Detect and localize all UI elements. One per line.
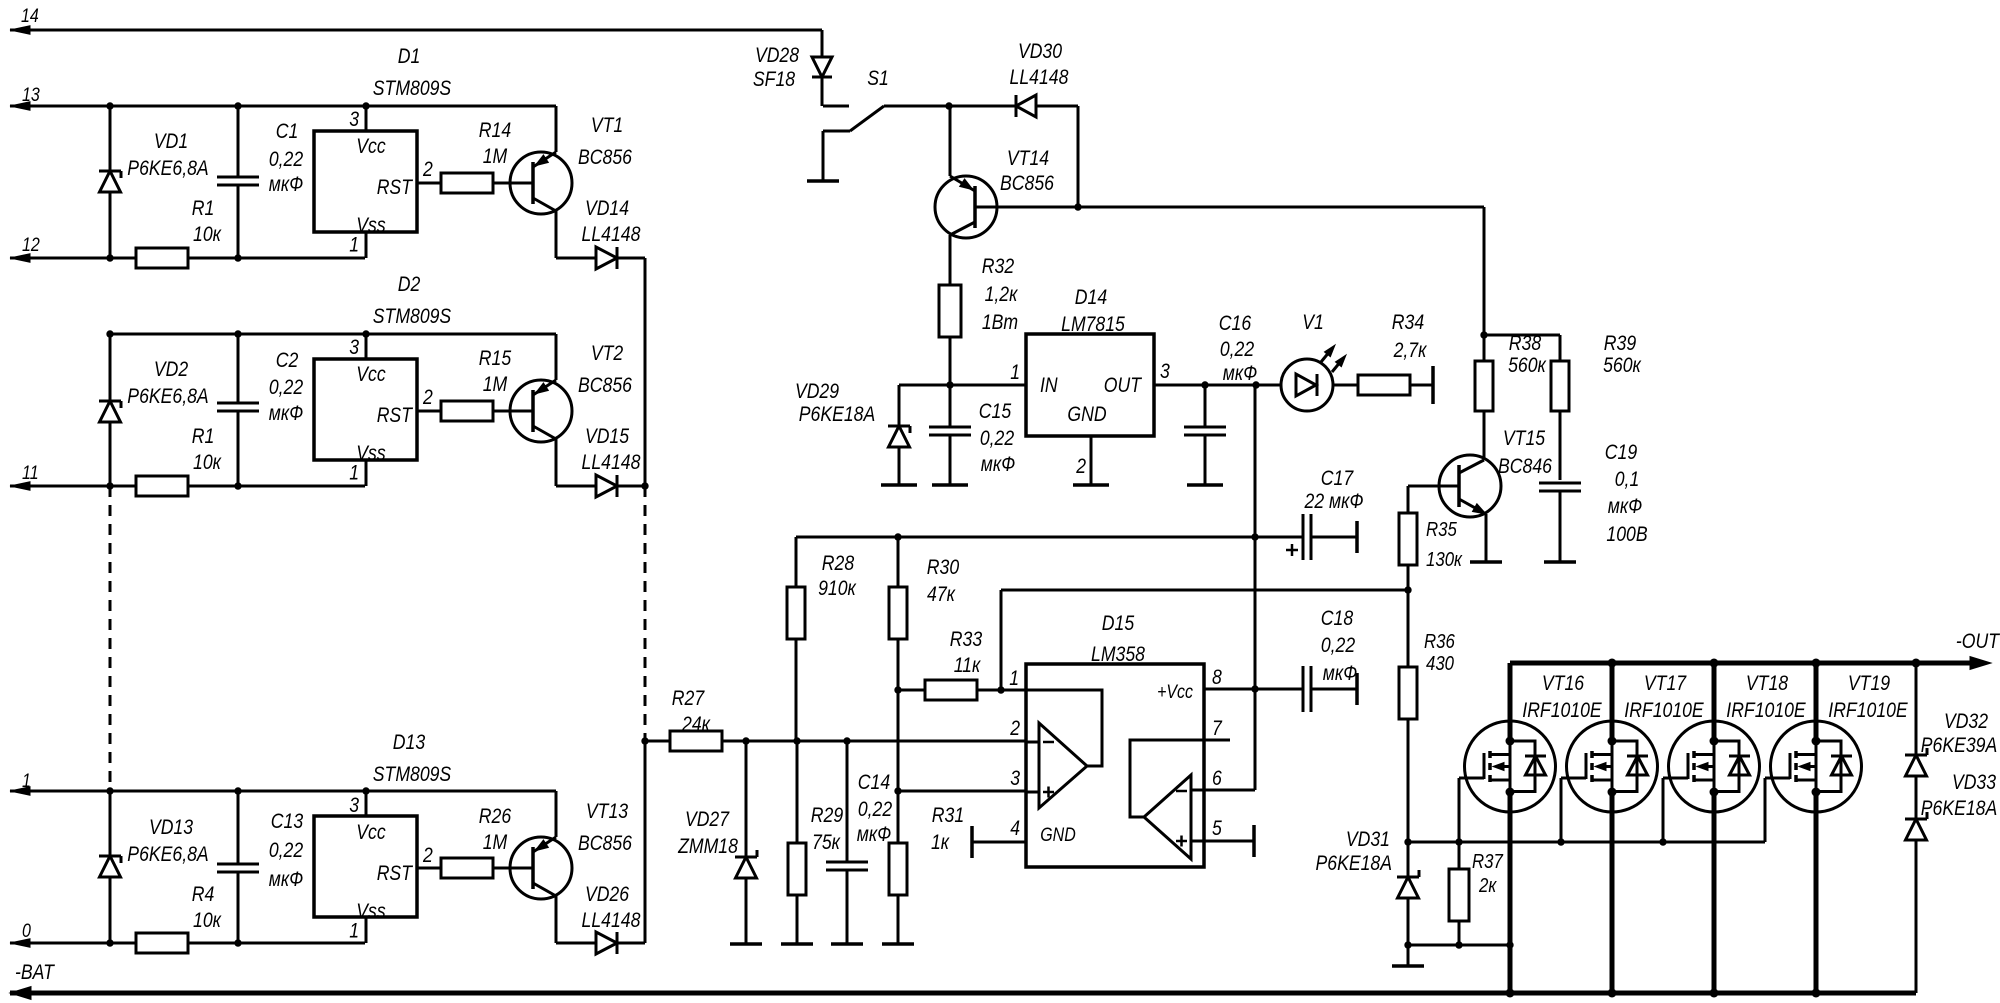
svg-text:V1: V1 bbox=[1302, 311, 1324, 334]
svg-text:100В: 100В bbox=[1606, 523, 1647, 546]
svg-text:VD13: VD13 bbox=[149, 816, 193, 839]
pin 1 bbox=[365, 917, 368, 943]
wire op-amp output feedback bbox=[1000, 590, 1003, 690]
svg-text:BC856: BC856 bbox=[1000, 172, 1054, 195]
svg-text:2: 2 bbox=[422, 158, 433, 181]
svg-text:6: 6 bbox=[1212, 767, 1222, 790]
capacitor C15 bbox=[949, 385, 952, 428]
diode VD2 bbox=[109, 334, 112, 401]
wire divider top rail bbox=[796, 536, 1303, 539]
pin 3 bbox=[365, 106, 368, 131]
wire right column to VD26 bbox=[644, 741, 647, 943]
wire pin2 input line bbox=[722, 740, 1026, 743]
diode VD31 P6KE18A bbox=[1407, 842, 1410, 877]
svg-text:3: 3 bbox=[349, 336, 359, 359]
wire gate bus bbox=[1408, 841, 1765, 844]
resistor R39 bbox=[1484, 334, 1560, 337]
svg-text:Vss: Vss bbox=[356, 900, 386, 923]
wire top line node 13 bbox=[10, 105, 556, 108]
diode VD13 bbox=[109, 791, 112, 856]
resistor R32 bbox=[939, 285, 961, 337]
svg-text:D2: D2 bbox=[398, 273, 421, 296]
diode VD1 bbox=[109, 106, 112, 171]
diode VD15 LL4148 bbox=[556, 485, 596, 488]
junction bbox=[946, 381, 953, 388]
svg-text:1M: 1M bbox=[483, 831, 508, 854]
wire R30 to R31 bbox=[897, 690, 900, 791]
svg-text:IRF1010E: IRF1010E bbox=[1828, 699, 1908, 722]
junction bbox=[106, 482, 113, 489]
resistor R36 bbox=[1407, 590, 1410, 667]
transistor VT18 IRF1010E bbox=[1669, 721, 1760, 812]
junction bbox=[1455, 838, 1462, 845]
svg-text:P6KE6,8A: P6KE6,8A bbox=[127, 843, 208, 866]
wire IN line bbox=[899, 384, 1026, 387]
junction bbox=[1074, 203, 1081, 210]
transistor VT17 IRF1010E bbox=[1567, 721, 1658, 812]
svg-text:SF18: SF18 bbox=[753, 68, 795, 91]
svg-text:75к: 75к bbox=[812, 831, 841, 854]
wire VD30 to VT14 base bbox=[1077, 106, 1080, 207]
svg-text:BC846: BC846 bbox=[1498, 455, 1552, 478]
svg-text:1: 1 bbox=[349, 462, 359, 485]
svg-text:VD27: VD27 bbox=[685, 808, 730, 831]
diode VD14 LL4148 bbox=[556, 257, 596, 260]
svg-text:R26: R26 bbox=[479, 805, 512, 828]
svg-text:C18: C18 bbox=[1321, 607, 1354, 630]
svg-text:R28: R28 bbox=[822, 552, 855, 575]
svg-text:1: 1 bbox=[22, 771, 31, 792]
svg-text:P6KE18A: P6KE18A bbox=[1316, 852, 1393, 875]
svg-text:C2: C2 bbox=[276, 349, 299, 372]
svg-text:R27: R27 bbox=[672, 687, 706, 710]
svg-text:C16: C16 bbox=[1219, 312, 1252, 335]
capacitor C17 polarized bbox=[1302, 514, 1305, 560]
svg-text:LL4148: LL4148 bbox=[582, 223, 641, 246]
junction bbox=[641, 482, 648, 489]
svg-text:P6KE6,8A: P6KE6,8A bbox=[127, 385, 208, 408]
resistor R33 bbox=[898, 689, 925, 692]
junction bbox=[1480, 331, 1487, 338]
svg-text:0,22: 0,22 bbox=[1220, 338, 1255, 361]
pin 1 bbox=[365, 232, 368, 258]
svg-text:C14: C14 bbox=[858, 771, 890, 794]
svg-text:R4: R4 bbox=[192, 883, 215, 906]
pin 1 bbox=[365, 460, 368, 486]
svg-text:VD32: VD32 bbox=[1944, 710, 1988, 733]
resistor R38 bbox=[1483, 335, 1486, 361]
wire dashed omitted cells right bbox=[644, 486, 647, 741]
svg-text:C13: C13 bbox=[271, 810, 304, 833]
op-amp B triangle bbox=[1144, 775, 1191, 859]
resistor R35 bbox=[1407, 486, 1410, 513]
svg-text:R14: R14 bbox=[479, 119, 511, 142]
svg-text:Vcc: Vcc bbox=[356, 363, 386, 386]
svg-text:+Vcc: +Vcc bbox=[1157, 682, 1193, 703]
svg-text:560к: 560к bbox=[1508, 354, 1547, 377]
svg-text:7: 7 bbox=[1212, 717, 1223, 740]
svg-text:мкФ: мкФ bbox=[1223, 362, 1257, 385]
resistor R30 bbox=[897, 537, 900, 587]
wire base rail to R38R39 bbox=[1078, 206, 1484, 209]
svg-text:RST: RST bbox=[377, 404, 414, 427]
junction bbox=[1404, 838, 1411, 845]
svg-text:560к: 560к bbox=[1603, 354, 1642, 377]
svg-text:мкФ: мкФ bbox=[269, 402, 303, 425]
svg-text:2,7к: 2,7к bbox=[1393, 339, 1428, 362]
transistor VT19 IRF1010E bbox=[1771, 721, 1862, 812]
pin 7 stub bbox=[1204, 739, 1230, 742]
svg-text:3: 3 bbox=[1010, 767, 1020, 790]
transistor VT1 BC856 bbox=[510, 152, 572, 214]
IC D15 LM358 box bbox=[1026, 664, 1204, 867]
svg-text:1,2к: 1,2к bbox=[985, 283, 1019, 306]
svg-text:P6KE39A: P6KE39A bbox=[1921, 734, 1998, 757]
wire top line node 1 bbox=[10, 790, 556, 793]
svg-text:RST: RST bbox=[377, 862, 414, 885]
svg-text:VD14: VD14 bbox=[585, 197, 629, 220]
resistor R37 bbox=[1458, 842, 1461, 869]
svg-text:STM809S: STM809S bbox=[373, 305, 451, 328]
diode VD33 P6KE18A bbox=[1915, 776, 1918, 819]
svg-text:R35: R35 bbox=[1426, 519, 1458, 541]
resistor R1 bbox=[136, 476, 188, 496]
IC D2 STM809S box bbox=[314, 359, 417, 460]
svg-text:R31: R31 bbox=[932, 804, 964, 827]
junction bbox=[945, 102, 952, 109]
svg-text:1M: 1M bbox=[483, 373, 508, 396]
resistor R14 bbox=[441, 173, 493, 193]
capacitor C14 bbox=[846, 741, 849, 863]
resistor R26 bbox=[441, 858, 493, 878]
svg-text:мкФ: мкФ bbox=[981, 453, 1015, 476]
svg-text:R29: R29 bbox=[811, 804, 844, 827]
IC D13 STM809S box bbox=[314, 816, 417, 917]
svg-text:0,22: 0,22 bbox=[269, 148, 304, 171]
svg-text:LM7815: LM7815 bbox=[1061, 313, 1125, 336]
capacitor C19 bbox=[1539, 482, 1581, 485]
svg-text:13: 13 bbox=[22, 85, 40, 106]
junction bbox=[1506, 989, 1515, 998]
svg-text:22 мкФ: 22 мкФ bbox=[1304, 490, 1364, 513]
svg-text:910к: 910к bbox=[818, 577, 857, 600]
junction bbox=[1251, 685, 1258, 692]
svg-text:R1: R1 bbox=[192, 197, 215, 220]
svg-text:11: 11 bbox=[22, 463, 39, 484]
svg-text:R33: R33 bbox=[950, 628, 983, 651]
junction bbox=[894, 686, 901, 693]
svg-text:0: 0 bbox=[22, 921, 31, 942]
pin 3 bbox=[365, 334, 368, 359]
pin 2 wire bbox=[417, 182, 533, 185]
diode VD27 ZMM18 bbox=[745, 741, 748, 857]
IC D1 STM809S box bbox=[314, 131, 417, 232]
svg-text:IRF1010E: IRF1010E bbox=[1726, 699, 1806, 722]
resistor R28 bbox=[795, 537, 798, 587]
svg-text:4: 4 bbox=[1010, 817, 1020, 840]
svg-text:VT19: VT19 bbox=[1848, 672, 1890, 695]
svg-text:VT13: VT13 bbox=[586, 800, 628, 823]
svg-text:VD33: VD33 bbox=[1952, 771, 1996, 794]
svg-text:3: 3 bbox=[349, 794, 359, 817]
svg-text:OUT: OUT bbox=[1104, 374, 1143, 397]
wire top line node 14 bbox=[10, 29, 822, 32]
resistor R31 bbox=[897, 791, 900, 843]
diode VD26 LL4148 bbox=[556, 942, 596, 945]
junction bbox=[641, 737, 648, 744]
op-amp A triangle bbox=[1039, 723, 1087, 808]
svg-text:мкФ: мкФ bbox=[857, 823, 891, 846]
pin 6 wire bbox=[1204, 789, 1255, 792]
svg-text:R30: R30 bbox=[927, 556, 960, 579]
diode VD29 P6KE18A bbox=[898, 385, 901, 426]
transistor VT16 IRF1010E bbox=[1465, 721, 1556, 812]
svg-text:VD2: VD2 bbox=[154, 358, 189, 381]
wire -BAT bus bbox=[10, 991, 1916, 996]
svg-text:C19: C19 bbox=[1605, 441, 1638, 464]
resistor R29 bbox=[796, 741, 799, 843]
svg-text:VT14: VT14 bbox=[1007, 147, 1049, 170]
resistor R4 bbox=[136, 933, 188, 953]
svg-text:ZMM18: ZMM18 bbox=[677, 835, 738, 858]
pin 2 GND of D14 bbox=[1090, 436, 1093, 485]
IC D14 LM7815 box bbox=[1026, 334, 1154, 436]
resistor R27 bbox=[645, 740, 670, 743]
svg-text:R34: R34 bbox=[1392, 311, 1424, 334]
junction bbox=[1404, 586, 1411, 593]
svg-text:IRF1010E: IRF1010E bbox=[1522, 699, 1602, 722]
svg-text:STM809S: STM809S bbox=[373, 77, 451, 100]
svg-text:2: 2 bbox=[1009, 717, 1020, 740]
junction bbox=[1608, 659, 1617, 668]
svg-text:24к: 24к bbox=[681, 713, 711, 736]
svg-text:Vcc: Vcc bbox=[356, 821, 386, 844]
wire dashed omitted cells left bbox=[109, 486, 112, 791]
wire bottom line node 12 bbox=[10, 257, 365, 260]
junction bbox=[894, 533, 901, 540]
pin 2 wire bbox=[417, 867, 533, 870]
svg-text:0,22: 0,22 bbox=[1321, 634, 1356, 657]
resistor R1 bbox=[136, 248, 188, 268]
svg-text:VD30: VD30 bbox=[1018, 40, 1062, 63]
pin 8 wire bbox=[1204, 688, 1303, 691]
wire pin3 input line bbox=[898, 790, 1026, 793]
svg-text:P6KE6,8A: P6KE6,8A bbox=[127, 157, 208, 180]
svg-text:D1: D1 bbox=[398, 45, 421, 68]
junction bbox=[1201, 381, 1208, 388]
wire OUT line bbox=[1154, 384, 1281, 387]
svg-text:11к: 11к bbox=[954, 654, 982, 677]
svg-text:14: 14 bbox=[21, 6, 39, 27]
junction bbox=[1404, 941, 1411, 948]
junction bbox=[106, 330, 113, 337]
svg-text:мкФ: мкФ bbox=[269, 868, 303, 891]
svg-text:IN: IN bbox=[1040, 374, 1058, 397]
svg-text:3: 3 bbox=[1160, 360, 1170, 383]
svg-text:BC856: BC856 bbox=[578, 146, 632, 169]
svg-text:Vcc: Vcc bbox=[356, 135, 386, 158]
junction bbox=[894, 787, 901, 794]
svg-text:R37: R37 bbox=[1472, 851, 1504, 873]
svg-text:VT15: VT15 bbox=[1503, 427, 1545, 450]
svg-text:R36: R36 bbox=[1424, 631, 1456, 653]
svg-text:BC856: BC856 bbox=[578, 832, 632, 855]
svg-text:мкФ: мкФ bbox=[1608, 495, 1642, 518]
resistor R15 bbox=[441, 401, 493, 421]
diode VD30 LL4148 bbox=[949, 105, 1016, 108]
resistor R34 bbox=[1358, 375, 1410, 395]
capacitor C1 bbox=[237, 106, 240, 177]
svg-text:P6KE18A: P6KE18A bbox=[1921, 797, 1998, 820]
svg-text:VD28: VD28 bbox=[755, 44, 799, 67]
svg-text:0,22: 0,22 bbox=[269, 839, 304, 862]
junction bbox=[106, 939, 113, 946]
pin 1 wire bbox=[1001, 689, 1026, 692]
svg-text:0,22: 0,22 bbox=[858, 798, 893, 821]
svg-text:R1: R1 bbox=[192, 425, 215, 448]
svg-text:0,22: 0,22 bbox=[269, 376, 304, 399]
svg-text:1: 1 bbox=[349, 920, 359, 943]
junction bbox=[742, 737, 749, 744]
svg-text:1Вт: 1Вт bbox=[982, 311, 1018, 334]
capacitor C2 bbox=[237, 334, 240, 403]
svg-text:GND: GND bbox=[1067, 403, 1106, 426]
svg-text:47к: 47к bbox=[927, 583, 956, 606]
svg-text:10к: 10к bbox=[193, 451, 222, 474]
pin 4 wire bbox=[972, 841, 1026, 844]
svg-text:0,1: 0,1 bbox=[1615, 468, 1640, 491]
svg-text:430: 430 bbox=[1426, 653, 1454, 675]
svg-text:1M: 1M bbox=[483, 145, 508, 168]
svg-text:10к: 10к bbox=[193, 223, 222, 246]
svg-text:8: 8 bbox=[1212, 666, 1222, 689]
svg-text:VD26: VD26 bbox=[585, 883, 629, 906]
capacitor C16 bbox=[1204, 385, 1207, 428]
wire top line of block D2 bbox=[110, 333, 556, 336]
transistor VT14 BC856 bbox=[935, 176, 997, 238]
pin 5 stub bbox=[1204, 840, 1254, 843]
svg-text:LM358: LM358 bbox=[1091, 643, 1145, 666]
svg-text:R39: R39 bbox=[1604, 332, 1637, 355]
pin 3 bbox=[365, 791, 368, 816]
capacitor C13 bbox=[237, 791, 240, 864]
svg-text:VD1: VD1 bbox=[154, 130, 188, 153]
op-amp A output wire bbox=[1026, 690, 1102, 766]
diode VD28 SF18 bbox=[821, 30, 824, 57]
svg-text:BC856: BC856 bbox=[578, 374, 632, 397]
op-amp B output wire bbox=[1130, 740, 1204, 817]
capacitor C18 bbox=[1302, 666, 1305, 712]
svg-text:-BAT: -BAT bbox=[15, 961, 56, 984]
svg-text:-OUT: -OUT bbox=[1956, 630, 2000, 653]
transistor VT2 BC856 bbox=[510, 380, 572, 442]
diode VD32 P6KE39A bbox=[1915, 663, 1918, 755]
transistor VT15 BC846 bbox=[1439, 455, 1501, 517]
svg-text:1к: 1к bbox=[931, 831, 950, 854]
svg-text:Vss: Vss bbox=[356, 442, 386, 465]
svg-text:C1: C1 bbox=[276, 120, 299, 143]
svg-text:1: 1 bbox=[1010, 361, 1020, 384]
svg-text:мкФ: мкФ bbox=[269, 173, 303, 196]
wire Vcc column bbox=[1254, 385, 1257, 790]
svg-text:12: 12 bbox=[22, 235, 40, 256]
junction bbox=[106, 254, 113, 261]
svg-text:LL4148: LL4148 bbox=[582, 451, 641, 474]
svg-text:VT1: VT1 bbox=[591, 114, 623, 137]
svg-text:1: 1 bbox=[349, 234, 359, 257]
svg-text:3: 3 bbox=[349, 108, 359, 131]
svg-text:D15: D15 bbox=[1102, 612, 1135, 635]
svg-text:VT16: VT16 bbox=[1542, 672, 1584, 695]
LED V1 bbox=[1281, 359, 1333, 411]
wire -OUT bus bbox=[1510, 661, 1972, 666]
wire source sense line bbox=[1408, 944, 1510, 947]
junction bbox=[106, 102, 113, 109]
svg-text:S1: S1 bbox=[867, 67, 889, 90]
svg-text:GND: GND bbox=[1040, 825, 1076, 846]
svg-text:C15: C15 bbox=[979, 400, 1012, 423]
svg-text:VT2: VT2 bbox=[591, 342, 624, 365]
svg-text:LL4148: LL4148 bbox=[582, 909, 641, 932]
svg-text:Vss: Vss bbox=[356, 214, 386, 237]
svg-text:0,22: 0,22 bbox=[980, 427, 1015, 450]
svg-text:R15: R15 bbox=[479, 347, 512, 370]
junction bbox=[997, 686, 1004, 693]
svg-text:130к: 130к bbox=[1426, 549, 1463, 571]
svg-text:RST: RST bbox=[377, 176, 414, 199]
wire bottom line node 0 bbox=[10, 942, 365, 945]
transistor VT13 BC856 bbox=[510, 837, 572, 899]
svg-text:10к: 10к bbox=[193, 909, 222, 932]
wire right column VD14-VD15 bbox=[644, 258, 647, 486]
svg-text:VD15: VD15 bbox=[585, 425, 629, 448]
svg-text:1: 1 bbox=[1009, 667, 1019, 690]
svg-text:R32: R32 bbox=[982, 255, 1015, 278]
svg-text:мкФ: мкФ bbox=[1323, 662, 1357, 685]
svg-text:VT18: VT18 bbox=[1746, 672, 1788, 695]
svg-text:IRF1010E: IRF1010E bbox=[1624, 699, 1704, 722]
svg-text:C17: C17 bbox=[1321, 467, 1355, 490]
pin 2 wire bbox=[417, 410, 533, 413]
wire bottom line node 11 bbox=[10, 485, 365, 488]
svg-text:D14: D14 bbox=[1075, 286, 1107, 309]
svg-text:VD29: VD29 bbox=[795, 380, 839, 403]
junction bbox=[106, 787, 113, 794]
switch S1 bbox=[823, 105, 849, 108]
svg-text:2: 2 bbox=[422, 386, 433, 409]
svg-text:P6KE18A: P6KE18A bbox=[799, 403, 876, 426]
svg-text:VT17: VT17 bbox=[1644, 672, 1687, 695]
svg-text:STM809S: STM809S bbox=[373, 763, 451, 786]
svg-text:LL4148: LL4148 bbox=[1010, 66, 1069, 89]
svg-text:D13: D13 bbox=[393, 731, 426, 754]
svg-text:2: 2 bbox=[422, 844, 433, 867]
svg-text:VD31: VD31 bbox=[1346, 828, 1390, 851]
svg-text:2к: 2к bbox=[1478, 875, 1497, 897]
svg-text:5: 5 bbox=[1212, 817, 1222, 840]
svg-text:2: 2 bbox=[1075, 455, 1086, 478]
